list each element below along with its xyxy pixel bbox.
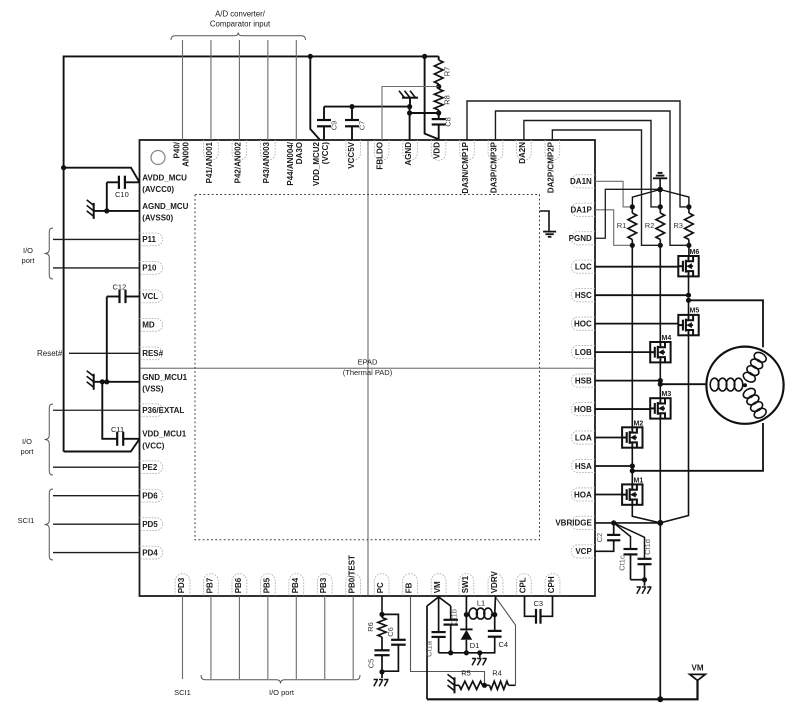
wire P41/AN001 analog input xyxy=(210,40,212,140)
svg-text:AGND: AGND xyxy=(404,142,413,166)
svg-text:C12: C12 xyxy=(113,283,127,292)
pin PC (bottom) xyxy=(374,574,389,596)
junction R1 top xyxy=(630,204,635,209)
svg-text:P41/AN001: P41/AN001 xyxy=(205,141,214,183)
svg-text:HOB: HOB xyxy=(574,405,592,414)
wire P36/EXTAL xyxy=(53,409,140,411)
label SCI1 (left) xyxy=(18,516,35,525)
label M1 xyxy=(634,477,644,484)
capacitor C5 xyxy=(374,650,389,672)
svg-text:C10: C10 xyxy=(115,190,129,199)
pin LOB (right) xyxy=(571,346,595,359)
wire HSB to M3 xyxy=(659,384,661,398)
svg-text:HOA: HOA xyxy=(574,490,592,499)
junction AGND rail b xyxy=(407,110,412,115)
wire VDRV stub xyxy=(494,596,497,615)
capacitor C7 xyxy=(345,107,359,140)
ground GND_MCU1 (earth) xyxy=(87,371,94,390)
wire phase B to motor xyxy=(660,383,710,385)
pin AGND_MCU (AVSS0) (left) xyxy=(142,202,188,223)
svg-text:DA2N: DA2N xyxy=(518,142,527,164)
wire phase A column upper xyxy=(631,245,633,427)
label R1 xyxy=(617,221,627,230)
pin HOB (right) xyxy=(571,402,595,415)
svg-text:LOC: LOC xyxy=(575,263,592,272)
pin VDRV (bottom) xyxy=(488,571,503,596)
junction AVDD tap xyxy=(61,165,66,170)
wire M3 source down xyxy=(659,419,661,523)
pin P36/EXTAL (left) xyxy=(140,404,185,417)
svg-text:PGND: PGND xyxy=(569,234,592,243)
brace I/O port (bottom) xyxy=(201,675,360,684)
svg-text:R2: R2 xyxy=(645,221,655,230)
svg-text:AVDD_MCU: AVDD_MCU xyxy=(142,174,187,183)
svg-text:VM: VM xyxy=(433,581,442,593)
svg-text:VDD_MCU2: VDD_MCU2 xyxy=(312,141,321,186)
pin CPH (bottom) xyxy=(545,574,560,596)
label C3 xyxy=(534,599,544,608)
svg-text:LOB: LOB xyxy=(575,348,592,357)
diode D1 xyxy=(460,629,472,652)
junction AGND rail a xyxy=(407,104,412,109)
svg-text:PD3: PD3 xyxy=(177,577,186,593)
pin LOA (right) xyxy=(571,431,595,444)
svg-text:RES#: RES# xyxy=(142,349,163,358)
svg-text:P40/: P40/ xyxy=(172,141,181,158)
resistor R6 xyxy=(378,614,386,650)
transistor M3 xyxy=(650,398,670,418)
wire M4 to HSB xyxy=(659,362,661,380)
wire LOC row xyxy=(595,266,678,268)
capacitor C10 xyxy=(107,176,140,211)
svg-text:C5: C5 xyxy=(367,659,376,669)
junction VBRIDGE main xyxy=(657,520,663,526)
label R2 xyxy=(645,221,655,230)
label Ct1d xyxy=(643,539,652,555)
wire PD4 xyxy=(53,552,140,554)
svg-text:(AVSS0): (AVSS0) xyxy=(142,214,173,223)
motor M (BLDC) xyxy=(706,347,783,424)
wire apex to R1 top xyxy=(632,190,660,207)
svg-text:VDD: VDD xyxy=(432,142,441,159)
svg-text:D1: D1 xyxy=(470,641,480,650)
svg-text:PD5: PD5 xyxy=(142,520,158,529)
wire PB4 stub xyxy=(295,596,297,679)
svg-text:PB3: PB3 xyxy=(319,577,328,593)
svg-text:VDRV: VDRV xyxy=(490,571,499,594)
label Ct1a xyxy=(425,640,434,657)
capacitor C3 xyxy=(525,596,553,624)
label C10 xyxy=(115,190,129,199)
wire VM pin chevron xyxy=(427,597,451,606)
pin DA2P/CMP2P (top) xyxy=(545,140,560,193)
wire FB to divider xyxy=(411,596,485,685)
pin P42/AN002 (top) xyxy=(232,140,247,183)
svg-text:Ct1c: Ct1c xyxy=(618,555,627,571)
capacitor C6 xyxy=(382,614,406,671)
capacitor C12 xyxy=(107,290,140,382)
EPAD thermal pad (dashed) xyxy=(195,195,540,540)
svg-text:PB0/TEST: PB0/TEST xyxy=(348,555,357,593)
label I/O port (P11/P10) xyxy=(22,246,36,265)
junction R8/C8 xyxy=(436,110,441,115)
label VM xyxy=(692,664,704,673)
junction R2 bottom xyxy=(658,243,663,248)
label R3 xyxy=(673,221,683,230)
ground PGND (inverted bars) xyxy=(653,173,667,190)
pin PD3 (bottom) xyxy=(175,574,190,596)
junction PC/R6/C6 xyxy=(379,612,384,617)
svg-text:DA3P/CMP3P: DA3P/CMP3P xyxy=(489,141,498,193)
capacitor Ct1c xyxy=(614,523,638,580)
wire regulator gnd rail xyxy=(439,652,496,654)
pin PE2 (left) xyxy=(140,461,163,474)
svg-text:Comparator input: Comparator input xyxy=(210,19,271,28)
supply symbol VM xyxy=(690,674,705,680)
capacitor C11 xyxy=(102,382,139,446)
svg-text:PB7: PB7 xyxy=(205,577,214,593)
svg-text:PE2: PE2 xyxy=(142,463,158,472)
svg-text:PB6: PB6 xyxy=(234,577,243,593)
junction L1/C4/VDRV xyxy=(492,612,497,617)
svg-text:CPL: CPL xyxy=(518,577,527,593)
svg-text:C9: C9 xyxy=(330,121,339,131)
wire VCC top rail xyxy=(64,56,439,451)
pin DA3P/CMP3P (top) xyxy=(488,140,503,193)
wire VM bottom rail xyxy=(427,680,698,699)
wire PB7 stub xyxy=(210,596,212,679)
svg-text:M2: M2 xyxy=(634,420,644,427)
wire M5 source down xyxy=(660,335,688,523)
svg-text:C3: C3 xyxy=(534,599,544,608)
ground VBRIDGE caps (777) xyxy=(637,580,652,594)
pin P41/AN001 (top) xyxy=(204,140,219,183)
wire VCC rail to VDD_MCU1 pin xyxy=(64,439,140,452)
pin CPL (bottom) xyxy=(517,574,532,596)
svg-text:R3: R3 xyxy=(673,221,683,230)
wire HOC row xyxy=(595,323,678,325)
pin HSC (right) xyxy=(571,289,595,302)
svg-text:C7: C7 xyxy=(358,121,367,131)
label Ct1b xyxy=(450,609,459,625)
svg-text:(AVCC0): (AVCC0) xyxy=(142,185,174,194)
svg-text:P42/AN002: P42/AN002 xyxy=(233,141,242,183)
ground AGND_MCU (earth) xyxy=(87,200,94,219)
capacitor C8 xyxy=(432,113,446,140)
pin VDD (top) xyxy=(431,140,446,160)
svg-text:M4: M4 xyxy=(662,335,672,342)
label I/O port (bottom) xyxy=(269,688,295,697)
wire SW1 stub xyxy=(465,596,467,629)
svg-text:PC: PC xyxy=(376,582,385,593)
transistor M4 xyxy=(650,342,670,362)
svg-text:VBRIDGE: VBRIDGE xyxy=(555,519,592,528)
wire phase B column upper xyxy=(659,245,661,342)
svg-text:PD4: PD4 xyxy=(142,548,158,557)
svg-text:M3: M3 xyxy=(662,391,672,398)
pin FB (bottom) xyxy=(403,574,418,596)
motor winding C xyxy=(742,350,768,384)
wire R8 to AGND node xyxy=(410,112,439,114)
wire M1 source down xyxy=(632,505,660,523)
wire DA1N xyxy=(595,181,632,207)
junction rail VDD_MCU2 xyxy=(308,54,313,59)
svg-text:HOC: HOC xyxy=(574,319,592,328)
label C7 xyxy=(358,121,367,131)
svg-text:(Thermal PAD): (Thermal PAD) xyxy=(343,368,393,377)
wire PE2 xyxy=(53,466,140,468)
label SCI1 (bottom) xyxy=(174,688,191,697)
pin PB0/TEST (bottom) xyxy=(346,555,361,596)
wire M6 to HSC xyxy=(688,276,690,295)
wire P42/AN002 analog input xyxy=(238,40,240,140)
svg-text:SW1: SW1 xyxy=(461,575,470,593)
svg-text:C6: C6 xyxy=(386,627,395,637)
wire LOA row xyxy=(595,437,622,439)
svg-text:DA1N: DA1N xyxy=(570,177,592,186)
junction HSC xyxy=(686,293,691,303)
wire M2 to HSA xyxy=(631,448,633,466)
label C12 xyxy=(113,283,127,292)
svg-text:VCP: VCP xyxy=(575,547,592,556)
junction VBRIDGE a xyxy=(611,520,616,525)
svg-text:DA3N/CMP1P: DA3N/CMP1P xyxy=(461,141,470,193)
svg-text:M1: M1 xyxy=(634,477,644,484)
pin DA1P (right) xyxy=(570,203,595,216)
svg-text:port: port xyxy=(22,256,36,265)
package centerline crosshair xyxy=(140,140,596,596)
wire rail to VDD_MCU2 pin xyxy=(310,56,320,140)
pin HSA (right) xyxy=(571,459,595,472)
pin DA1N (right) xyxy=(570,175,595,188)
wire PB0/TEST stub xyxy=(352,596,354,679)
pin HSB (right) xyxy=(571,374,595,387)
pin VDD_MCU2 (VCC) (top) xyxy=(312,141,330,186)
label C5 xyxy=(367,659,376,669)
svg-text:GND_MCU1: GND_MCU1 xyxy=(142,373,187,382)
junction R1 bottom xyxy=(630,243,635,248)
wire LOB row xyxy=(595,351,650,353)
svg-text:R4: R4 xyxy=(492,669,502,678)
pin FBLDO (top) xyxy=(374,140,389,170)
wire PB5 stub xyxy=(267,596,269,679)
brace SCI1 xyxy=(45,489,54,560)
capacitor C9 xyxy=(317,107,331,140)
wire PB3 stub xyxy=(324,596,326,679)
wire HOA row xyxy=(595,493,622,495)
svg-text:FB: FB xyxy=(405,582,414,593)
junction VM rail xyxy=(657,696,663,702)
svg-text:R5: R5 xyxy=(461,669,471,678)
label C8 xyxy=(444,117,453,127)
wire HSC row xyxy=(595,294,689,296)
wire PD3 stub xyxy=(182,596,184,679)
svg-text:C11: C11 xyxy=(111,425,124,434)
transistor M5 xyxy=(678,315,698,335)
svg-text:Ct1a: Ct1a xyxy=(425,640,434,657)
wire apex to R3 top xyxy=(660,190,689,207)
junction HSA xyxy=(630,463,635,473)
resistor R2 xyxy=(656,207,665,245)
label R6 xyxy=(366,622,375,632)
pin VDD_MCU1 (VCC) (left) xyxy=(142,430,187,451)
wire P40/ AN000 analog input xyxy=(182,40,184,140)
capacitor Ct1a xyxy=(432,597,446,653)
capacitor C2 xyxy=(595,523,620,551)
svg-text:HSB: HSB xyxy=(575,376,592,385)
inductor L1 xyxy=(466,608,494,619)
pin AGND (top) xyxy=(403,140,418,166)
pin MD (left) xyxy=(140,318,163,331)
motor winding A xyxy=(742,386,768,420)
pin PB6 (bottom) xyxy=(232,574,247,596)
junction SW1/L1 xyxy=(464,612,469,617)
label R7 xyxy=(443,67,452,77)
junction Ct1b gnd xyxy=(448,650,453,655)
pin PB3 (bottom) xyxy=(317,574,332,596)
svg-text:FBLDO: FBLDO xyxy=(376,142,385,170)
wire P10 xyxy=(53,267,140,269)
transistor M6 xyxy=(678,256,698,276)
MCU package outline U1 xyxy=(140,140,596,596)
pin VM (bottom) xyxy=(431,574,446,596)
svg-text:Reset#: Reset# xyxy=(37,349,63,358)
pin VBRIDGE (right) xyxy=(555,516,595,529)
junction R3 top xyxy=(686,204,691,209)
junction Ct1d gnd xyxy=(642,577,647,582)
wire PGND xyxy=(595,189,660,238)
svg-text:I/O: I/O xyxy=(23,246,33,255)
svg-text:AN000: AN000 xyxy=(181,141,190,166)
wire DA2N to R2 top xyxy=(524,121,660,207)
label I/O port (P36/PE2) xyxy=(21,437,35,456)
svg-text:Ct1b: Ct1b xyxy=(450,609,459,625)
label A/D converter / Comparator input xyxy=(210,10,271,29)
svg-text:A/D converter/: A/D converter/ xyxy=(215,10,266,19)
ground regulator (777) xyxy=(472,653,487,666)
label M4 xyxy=(662,335,672,342)
pin GND_MCU1 (VSS) (left) xyxy=(142,373,187,394)
svg-text:M6: M6 xyxy=(690,249,700,256)
wire DA3P/CMP3P to R3 bottom xyxy=(495,111,688,245)
svg-text:VDD_MCU1: VDD_MCU1 xyxy=(142,430,187,439)
svg-text:(VCC): (VCC) xyxy=(142,441,165,450)
svg-text:P10: P10 xyxy=(142,264,157,273)
transistor M2 xyxy=(622,427,642,447)
pin LOC (right) xyxy=(571,260,595,273)
brace I/O port (P36/PE2) xyxy=(45,404,54,475)
svg-text:R8: R8 xyxy=(443,95,452,105)
label C11 xyxy=(111,425,124,434)
brace A/D inputs xyxy=(171,33,306,41)
svg-text:VCL: VCL xyxy=(142,292,158,301)
svg-text:P36/EXTAL: P36/EXTAL xyxy=(142,406,184,415)
label L1 xyxy=(477,599,485,608)
wire phase C column upper xyxy=(688,245,690,256)
svg-text:SCI1: SCI1 xyxy=(174,688,191,697)
svg-text:C4: C4 xyxy=(499,640,509,649)
pin AVDD_MCU (AVCC0) (left) xyxy=(142,174,187,195)
wire FBLDO feedback xyxy=(382,87,439,141)
pin P44/AN004/ DA3O (top) xyxy=(286,141,304,185)
svg-text:MD: MD xyxy=(142,321,155,330)
svg-text:PD6: PD6 xyxy=(142,491,158,500)
svg-text:AGND_MCU: AGND_MCU xyxy=(142,202,188,211)
svg-text:C8: C8 xyxy=(444,117,453,127)
resistor R1 xyxy=(628,207,637,245)
wire HSB row xyxy=(595,380,660,382)
label R4 xyxy=(492,669,502,678)
svg-text:PB4: PB4 xyxy=(291,577,300,593)
label Reset# xyxy=(37,349,63,358)
wire AGND_MCU row xyxy=(94,210,140,212)
pin VCP (right) xyxy=(571,545,595,558)
svg-text:HSA: HSA xyxy=(575,462,592,471)
svg-text:CPH: CPH xyxy=(547,576,556,593)
svg-text:DA2P/CMP2P: DA2P/CMP2P xyxy=(546,141,555,193)
wire DA3N/CMP1P to R3 top xyxy=(467,101,689,207)
pin VCC5V (top) xyxy=(346,140,361,169)
junction C10/AGND xyxy=(104,208,109,213)
wire HSA to M1 xyxy=(631,471,633,485)
resistor R4 xyxy=(485,681,516,689)
svg-text:R7: R7 xyxy=(443,67,452,77)
svg-text:P43/AN003: P43/AN003 xyxy=(262,141,271,183)
junction rail VDD xyxy=(422,54,427,59)
label D1 xyxy=(470,641,480,650)
svg-text:DA1P: DA1P xyxy=(570,206,592,215)
junction R3 bottom xyxy=(686,243,691,248)
label C2 xyxy=(595,533,604,543)
svg-text:P44/AN004/: P44/AN004/ xyxy=(286,141,295,185)
wire AGND drop xyxy=(409,107,411,140)
svg-text:R6: R6 xyxy=(366,622,375,632)
label C6 xyxy=(386,627,395,637)
svg-text:R1: R1 xyxy=(617,221,627,230)
resistor R3 xyxy=(685,207,694,245)
pin RES# (left) xyxy=(140,347,164,360)
ground R5 (earth) xyxy=(448,674,455,693)
junction R7/R8 FBLDO xyxy=(436,84,441,89)
svg-text:LOA: LOA xyxy=(575,433,592,442)
label M5 xyxy=(690,308,700,315)
label M3 xyxy=(662,391,672,398)
wire HSA row xyxy=(595,465,632,467)
resistor R5 xyxy=(455,681,485,689)
wire phase A to motor xyxy=(632,423,763,471)
wire PD5 xyxy=(53,523,140,525)
wire P43/AN003 analog input xyxy=(267,40,269,140)
junction R2 top xyxy=(658,204,663,209)
label C9 xyxy=(330,121,339,131)
pin PD4 (left) xyxy=(140,546,163,559)
wire PC stub xyxy=(381,596,383,614)
resistor R8 xyxy=(434,87,443,114)
capacitor Ct1d xyxy=(614,523,652,580)
junction reg gnd xyxy=(477,650,482,655)
wire VBRIDGE to VM rail xyxy=(659,523,661,699)
wire VM to bottom rail xyxy=(426,606,428,699)
svg-text:I/O: I/O xyxy=(22,437,32,446)
pin PGND (right) xyxy=(569,232,595,245)
junction D1 gnd xyxy=(464,650,469,655)
ground near R8 (earth) xyxy=(399,91,418,107)
label M2 xyxy=(634,420,644,427)
wire apex to R2 top xyxy=(659,190,661,207)
junction HSB xyxy=(658,378,663,387)
svg-text:Ct1d: Ct1d xyxy=(643,539,652,555)
label M6 xyxy=(690,249,700,256)
